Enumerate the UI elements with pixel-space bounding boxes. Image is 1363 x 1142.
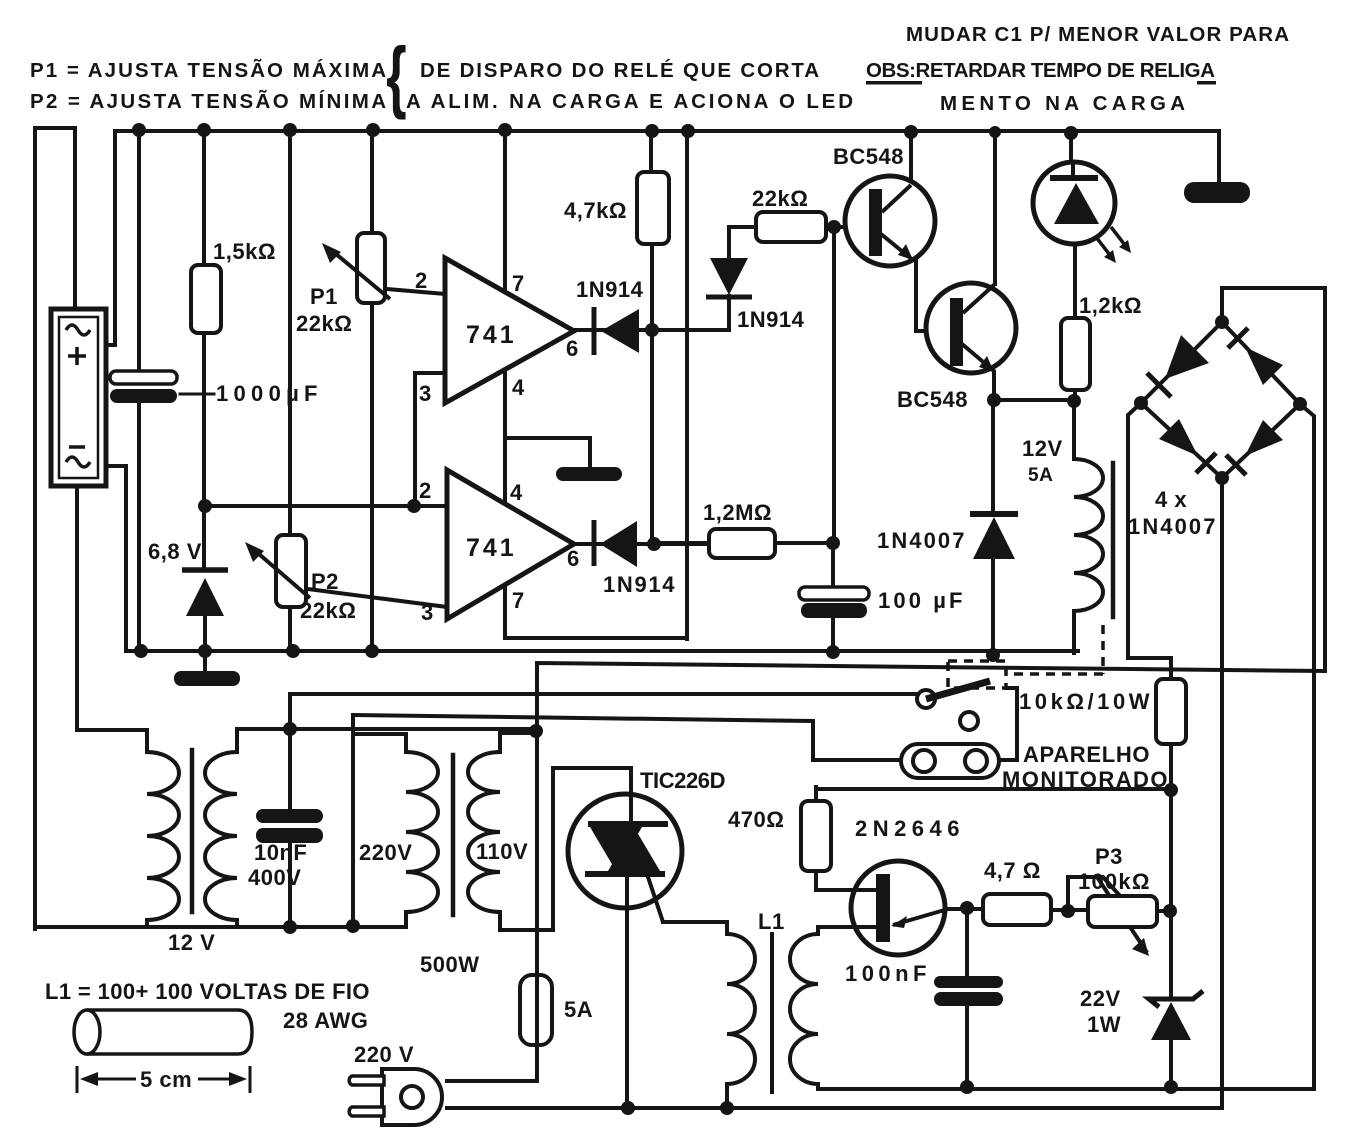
svg-text:OBS:RETARDAR TEMPO DE RELIGA: OBS:RETARDAR TEMPO DE RELIGA <box>866 59 1216 82</box>
svg-text:A ALIM. NA CARGA E ACIONA O LE: A ALIM. NA CARGA E ACIONA O LED <box>406 90 854 113</box>
svg-text:4: 4 <box>510 480 523 505</box>
svg-text:1,2MΩ: 1,2MΩ <box>703 500 772 525</box>
svg-text:1W: 1W <box>1087 1012 1121 1037</box>
svg-text:741: 741 <box>466 321 517 349</box>
svg-text:110V: 110V <box>476 839 528 864</box>
svg-text:22kΩ: 22kΩ <box>296 311 352 336</box>
svg-text:400V: 400V <box>248 865 301 890</box>
svg-text:12V: 12V <box>1022 436 1063 461</box>
svg-text:10nF: 10nF <box>254 840 307 865</box>
svg-text:APARELHO: APARELHO <box>1023 742 1150 767</box>
svg-text:1,5kΩ: 1,5kΩ <box>213 239 276 264</box>
svg-text:6,8 V: 6,8 V <box>148 539 202 564</box>
svg-text:5A: 5A <box>564 997 593 1022</box>
svg-text:7: 7 <box>512 271 524 296</box>
svg-text:100nF: 100nF <box>845 961 927 986</box>
svg-text:P2: P2 <box>311 569 339 594</box>
svg-text:P2 = AJUSTA TENSÃO MÍNIMA: P2 = AJUSTA TENSÃO MÍNIMA <box>30 90 387 113</box>
svg-text:BC548: BC548 <box>897 387 968 412</box>
svg-text:5A: 5A <box>1028 465 1053 486</box>
svg-text:4,7 Ω: 4,7 Ω <box>984 858 1041 883</box>
svg-text:BC548: BC548 <box>833 144 904 169</box>
svg-text:DE DISPARO DO RELÉ QUE CORTA: DE DISPARO DO RELÉ QUE CORTA <box>420 59 820 82</box>
svg-text:28 AWG: 28 AWG <box>283 1008 368 1033</box>
svg-text:6: 6 <box>566 336 578 361</box>
svg-text:1N914: 1N914 <box>576 277 644 302</box>
svg-text:P1 = AJUSTA TENSÃO MÁXIMA: P1 = AJUSTA TENSÃO MÁXIMA <box>30 59 387 82</box>
svg-text:5 cm: 5 cm <box>140 1067 192 1092</box>
svg-text:3: 3 <box>421 600 433 625</box>
svg-text:4 x: 4 x <box>1155 487 1187 512</box>
svg-text:2: 2 <box>415 268 427 293</box>
svg-text:L1: L1 <box>758 909 785 934</box>
svg-text:4,7kΩ: 4,7kΩ <box>564 198 627 223</box>
svg-text:741: 741 <box>466 534 517 562</box>
svg-text:P1: P1 <box>310 284 338 309</box>
svg-text:470Ω: 470Ω <box>728 807 784 832</box>
svg-text:TIC226D: TIC226D <box>640 768 726 793</box>
svg-text:L1 = 100+ 100 VOLTAS DE FIO: L1 = 100+ 100 VOLTAS DE FIO <box>45 979 370 1004</box>
svg-text:MONITORADO: MONITORADO <box>1002 767 1168 792</box>
svg-text:P3: P3 <box>1095 844 1123 869</box>
svg-text:{: { <box>386 32 407 121</box>
svg-text:22V: 22V <box>1080 986 1121 1011</box>
svg-text:3: 3 <box>419 381 431 406</box>
svg-text:1N914: 1N914 <box>737 307 805 332</box>
svg-text:100kΩ: 100kΩ <box>1078 869 1150 894</box>
svg-text:1,2kΩ: 1,2kΩ <box>1079 293 1142 318</box>
svg-text:MUDAR C1 P/ MENOR VALOR PARA: MUDAR C1 P/ MENOR VALOR PARA <box>906 23 1290 46</box>
svg-text:220V: 220V <box>359 840 412 865</box>
svg-text:7: 7 <box>512 588 524 613</box>
svg-text:22kΩ: 22kΩ <box>300 598 356 623</box>
svg-text:220 V: 220 V <box>354 1042 414 1067</box>
svg-text:4: 4 <box>512 375 525 400</box>
svg-text:500W: 500W <box>420 952 479 977</box>
svg-text:2: 2 <box>419 478 431 503</box>
svg-text:12 V: 12 V <box>168 930 215 955</box>
svg-text:22kΩ: 22kΩ <box>752 186 808 211</box>
svg-text:6: 6 <box>567 546 579 571</box>
svg-text:1N914: 1N914 <box>603 572 675 597</box>
